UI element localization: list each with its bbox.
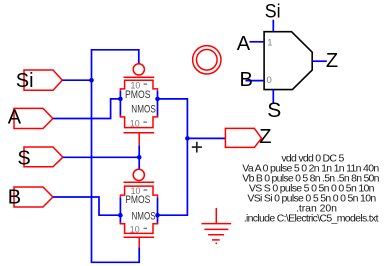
svg-text:Si: Si [265,2,281,23]
wire Si pin to junction [62,79,91,81]
svg-text:PMOS: PMOS [125,89,151,101]
svg-text:Z: Z [259,126,271,148]
wire S junction down to M2 PMOS bubble [138,157,140,169]
wire M2 right terminal stub [157,197,159,224]
svg-text:0: 0 [267,75,272,86]
node Si junction [89,78,94,83]
transistor M1 PMOS body [120,80,157,90]
svg-text:NMOS: NMOS [132,211,156,223]
node M2 right terminal [155,213,160,218]
wire S junction up to M1 NMOS gate stub [138,145,140,157]
spice deck text [242,153,379,225]
svg-text:S: S [267,99,281,122]
ground [202,208,232,244]
transistor M2 PMOS body [120,186,157,197]
power symbol double circle [193,46,221,74]
wire Z junction to Z pin [187,137,225,139]
svg-text:S: S [17,148,30,170]
plus probe mark [192,142,202,153]
wire mux A stub [250,41,265,43]
mux symbol body [264,32,312,90]
export pin S [17,147,63,170]
wire output rail from M1 right terminal down to M2 right terminal [158,99,188,215]
wire mux B stub [246,80,265,82]
svg-text:PMOS: PMOS [125,194,150,206]
node M2 left terminal [118,213,123,218]
wire mux Si stub [272,20,274,32]
wire B pin to M2 left terminal [53,197,121,215]
wire Si junction up to M1 PMOS gate bubble [92,50,139,80]
transistor M1 NMOS gate stub [138,133,140,146]
svg-text:1: 1 [267,37,272,48]
node M1 right terminal [155,97,160,102]
value label M1 PMOS 10 [131,80,148,91]
wire S pin to S junction [63,156,139,158]
transistor M2 PMOS gate bubble [133,169,144,180]
wire M2 left terminal stub [119,197,121,224]
transistor M2 NMOS body [120,222,157,233]
wire A pin to M1 left terminal [53,99,121,119]
wire M1 left terminal stub [119,91,121,117]
export pin Si [16,70,63,92]
wire mux Z stub [312,60,327,62]
svg-text:10: 10 [130,225,140,236]
export pin B [8,187,53,209]
export pin A [8,107,53,129]
value label M2 PMOS 10 [131,186,148,197]
transistor M2 NMOS gate bar [124,236,155,238]
wire Si junction down and around to M2 NMOS gate [92,80,140,262]
export pin Z [225,126,271,148]
transistor M2 PMOS gate bar [124,181,155,183]
wire mux S stub [272,90,274,104]
svg-text:B: B [240,69,253,91]
svg-text:B: B [8,187,21,209]
svg-text:Si: Si [16,70,34,92]
transistor M1 PMOS gate bar [124,76,155,78]
node Z junction [185,136,190,141]
value label M2 NMOS 10 [130,225,147,236]
svg-text:Z: Z [326,50,338,72]
transistor M1 PMOS gate bubble [133,64,144,75]
svg-text:NMOS: NMOS [131,104,156,116]
svg-text:.include C:\Electric\C5_models: .include C:\Electric\C5_models.txt [244,212,379,224]
transistor M1 NMOS gate bar [124,132,155,134]
node S junction [137,155,142,160]
node M1 left terminal [118,97,123,102]
transistor M2 NMOS gate stub [138,237,140,247]
svg-text:A: A [237,33,251,55]
svg-text:A: A [8,107,22,129]
transistor M1 NMOS body [120,115,157,127]
value label M1 NMOS 10 [130,118,147,129]
wire M1 right terminal stub [157,91,159,117]
svg-text:10: 10 [130,118,140,129]
